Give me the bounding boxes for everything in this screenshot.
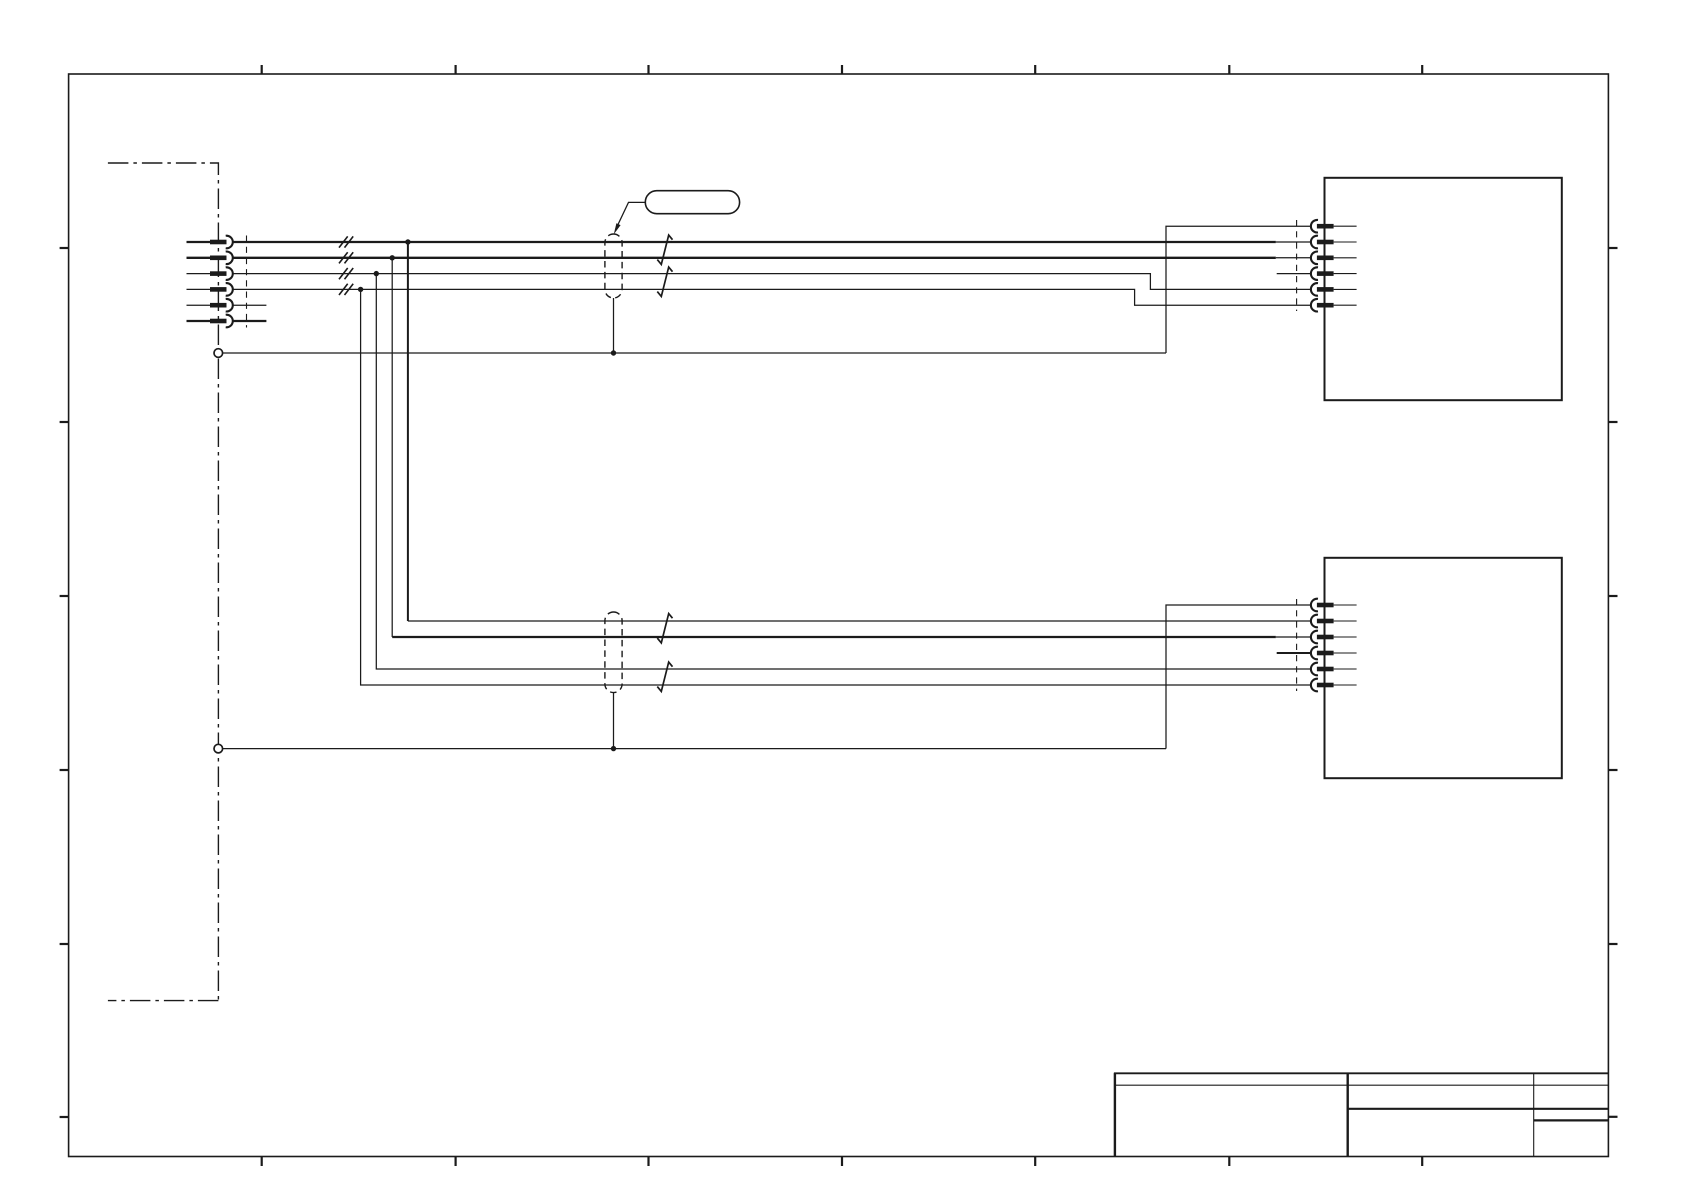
module2 pin 3 (1311, 631, 1357, 644)
module2 connector boundary (dashed) (1296, 599, 1298, 691)
left connector pin 5 (210, 299, 233, 312)
module1 pin 3 (1311, 252, 1357, 265)
pair indicator // row3 (339, 268, 353, 279)
twisted-pair symbol B (rows3-4) (657, 267, 672, 296)
left connector pin 3 (210, 267, 233, 280)
shield terminal circle 1 (214, 349, 223, 358)
module2 pin 5 (1311, 663, 1357, 676)
junction row1/riser1 (405, 239, 410, 244)
module1 pin 5 (1311, 283, 1357, 296)
junction row4/riser4 (358, 287, 363, 292)
twisted-pair symbol C (group2 rows1-2) (657, 614, 672, 643)
riser row2 to module2 pin3 (thick horizontal) (391, 258, 393, 637)
unit boundary (dash-dot outline, left unit) (108, 163, 218, 1001)
wire row2 left stub (187, 257, 212, 259)
module1 pin 6 (1311, 299, 1357, 312)
wire row3 left stub (187, 273, 212, 275)
left connector boundary (dashed) (246, 236, 248, 328)
pair indicator // row1 (339, 236, 353, 247)
module1 pin 2 (1311, 236, 1357, 249)
wire row4 to module1 pin6 (jog) (233, 289, 1311, 305)
shield ground wire 2 (223, 748, 1166, 750)
wire row2 (thick) to module1 pin3 (233, 257, 1276, 259)
module2 box (1325, 558, 1562, 778)
wire row1 left stub (187, 241, 212, 243)
shield1 drain tail (613, 298, 615, 353)
left connector pin 1 (210, 236, 233, 249)
twisted-pair symbol D (group2 rows3-4) (657, 662, 672, 691)
shield1 riser to module1 pin1 (1166, 226, 1311, 353)
shield (screened cable) symbol group 2 (605, 612, 622, 693)
module1 pin4 stub (1277, 273, 1311, 275)
module1 box (1325, 178, 1562, 400)
wire row5 stub (233, 304, 267, 306)
shield (screened cable) symbol group 1 (605, 234, 622, 298)
junction row2/riser2 (390, 255, 395, 260)
wire row4 left stub (187, 288, 212, 290)
twisted-pair symbol A (rows1-2) (657, 235, 672, 264)
module1 connector boundary (dashed) (1296, 220, 1298, 311)
pair indicator // row2 (339, 252, 353, 263)
module1 pin 4 (1311, 267, 1357, 280)
riser row1 to module2 pin2 (407, 242, 409, 621)
left connector pin 2 (210, 252, 233, 265)
module1 pin 1 (1311, 220, 1357, 233)
module2 pin4 stub (1277, 652, 1311, 654)
shield2 drain tail (613, 693, 615, 749)
wire row6 left stub (187, 320, 212, 322)
module2 pin 1 (1311, 599, 1357, 612)
module2 pin 2 (1311, 615, 1357, 628)
wire row6 stub (thick) (233, 320, 267, 322)
module2 pin 6 (1311, 679, 1357, 692)
callout leader with arrow (615, 202, 645, 230)
wire row3 to module1 pin5 (jog) (233, 274, 1311, 290)
junction row3/riser3 (374, 271, 379, 276)
wire row5 left stub (187, 304, 212, 306)
shield terminal circle 2 (214, 744, 223, 753)
riser row3 to module2 pin5 (376, 274, 1311, 669)
shield ground wire 1 (223, 352, 1166, 354)
left connector pin 6 (210, 315, 233, 328)
wire row1 (thick) to module1 pin2 (233, 241, 1276, 243)
junction shield1 tail (611, 350, 616, 355)
module2 pin 4 (1311, 647, 1357, 660)
riser row4 to module2 pin6 (361, 289, 1311, 685)
shield2 riser to module2 pin1 (1166, 605, 1311, 749)
junction shield2 tail (611, 746, 616, 751)
pair indicator // row4 (339, 284, 353, 295)
left connector pin 4 (210, 283, 233, 296)
TITLE BLOCK (1114, 1073, 1609, 1156)
callout balloon (empty) (645, 191, 739, 214)
